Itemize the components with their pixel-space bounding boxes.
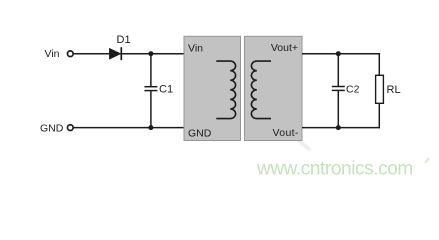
capacitor C2	[332, 87, 345, 91]
faint artifact smudge below module U2 corner	[298, 140, 310, 150]
wire C2 bottom plate to bottom rail	[337, 91, 339, 128]
converter module U2 body	[245, 36, 303, 140]
svg-text:C1: C1	[159, 84, 173, 96]
wire GND terminal to module1 GND pin	[73, 127, 184, 129]
input terminal Vin	[67, 51, 73, 57]
junction node at C1 bottom	[148, 125, 153, 130]
wire diode cathode to module1 Vin pin	[121, 53, 184, 55]
svg-text:Vin: Vin	[45, 48, 60, 60]
svg-text:Vout+: Vout+	[271, 42, 298, 54]
wire top rail corner down to RL top	[378, 53, 380, 75]
diode D1	[109, 47, 121, 60]
secondary winding inside module U2	[251, 61, 271, 118]
junction node at C1 top	[148, 51, 153, 56]
primary winding inside module U1	[216, 61, 235, 118]
svg-text:RL: RL	[387, 84, 401, 96]
svg-text:GND: GND	[40, 122, 64, 134]
capacitor C1	[144, 87, 157, 91]
wire module U2 Vout+ pin to load top	[302, 53, 379, 55]
wire module U2 Vout- pin to load bottom	[302, 127, 380, 129]
svg-text:Vin: Vin	[188, 42, 203, 54]
svg-text:www.cntronics.com: www.cntronics.com	[256, 159, 413, 180]
wire Vin terminal to diode anode	[73, 53, 110, 55]
wire junction down to C2 top plate	[337, 54, 339, 86]
faint artifact tick right of watermark	[425, 158, 429, 163]
resistor RL	[376, 75, 384, 103]
converter module U1 body	[184, 36, 241, 140]
wire RL bottom to bottom rail corner	[378, 103, 380, 128]
junction node at C2 bottom	[336, 125, 341, 130]
input terminal GND	[67, 125, 73, 131]
svg-text:D1: D1	[117, 34, 131, 46]
svg-text:C2: C2	[346, 83, 360, 95]
junction node at C2 top	[336, 51, 341, 56]
svg-text:GND: GND	[188, 128, 212, 140]
wire junction down to C1 top plate	[150, 54, 152, 86]
svg-text:Vout-: Vout-	[273, 127, 299, 139]
wire C1 bottom plate to GND rail	[150, 91, 152, 128]
